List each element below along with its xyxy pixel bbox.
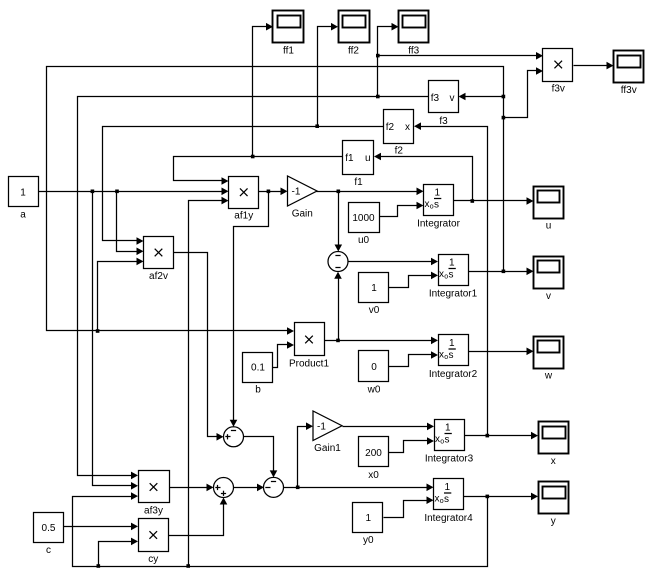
- svg-text:a: a: [20, 210, 26, 221]
- wire f1 branch to scope ff1: [253, 23, 274, 157]
- svg-text:s: s: [445, 435, 450, 446]
- wire Product1 branch to Sum1 bottom: [334, 272, 342, 341]
- wire a to af1y input2: [39, 188, 229, 196]
- wire u0 to Integrator ic: [379, 202, 424, 217]
- svg-text:1: 1: [445, 482, 451, 493]
- sum Sum4 (left -, top -): [264, 477, 284, 497]
- integrator Integrator4: [424, 479, 473, 525]
- svg-text:ff1: ff1: [283, 46, 294, 57]
- wire f2 branch to scope ff2: [318, 23, 339, 127]
- wire Sum3 output to Sum4 left: [234, 484, 265, 492]
- subsystem f1: [343, 141, 374, 189]
- gain Gain: [288, 176, 318, 219]
- constant b: [243, 353, 273, 396]
- scope ff2: [339, 11, 370, 57]
- svg-text:x: x: [425, 199, 430, 210]
- svg-text:Product1: Product1: [289, 358, 329, 369]
- svg-text:1: 1: [365, 513, 371, 524]
- wire y feedback trunk to af3y input3: [73, 492, 488, 568]
- svg-text:f1: f1: [345, 153, 354, 164]
- wire Gain1 output to Integrator3 input1: [343, 423, 435, 431]
- wire v feedback to f3 input: [459, 93, 504, 101]
- wire af1y branch to Sum2 top: [230, 192, 269, 427]
- wire af2v output to Sum2 left: [174, 253, 224, 441]
- scope v: [534, 257, 564, 303]
- svg-text:ff2: ff2: [348, 46, 359, 57]
- wire f3 branch to scope ff3: [378, 23, 399, 56]
- svg-text:f3: f3: [431, 93, 440, 104]
- scope x: [539, 422, 569, 468]
- svg-text:1: 1: [445, 423, 451, 434]
- product Product1: [289, 323, 329, 370]
- wire Integrator1 output to scope v: [469, 268, 534, 276]
- constant a: [9, 177, 39, 221]
- wire Gain output to Integrator input1: [317, 188, 424, 196]
- subsystem f3: [429, 81, 459, 128]
- wire c to cy input1: [64, 523, 139, 531]
- wire Sum2 output to Sum4 top: [244, 437, 278, 478]
- svg-text:Integrator2: Integrator2: [429, 369, 478, 380]
- scope u: [534, 187, 564, 232]
- svg-text:x: x: [405, 122, 410, 133]
- wire u feedback to f1 input: [374, 153, 473, 201]
- svg-text:200: 200: [365, 448, 382, 459]
- svg-text:af1y: af1y: [234, 210, 253, 221]
- wire f2 output to af2v input1: [103, 124, 384, 244]
- svg-text:1: 1: [371, 283, 377, 294]
- constant y0: [353, 503, 383, 547]
- integrator Integrator2: [429, 335, 478, 381]
- constant v0: [359, 273, 389, 317]
- svg-text:c: c: [46, 545, 51, 556]
- wire x0 to Integrator3 ic: [389, 437, 435, 452]
- wire Integrator output to scope u: [454, 197, 534, 205]
- svg-text:Gain1: Gain1: [314, 443, 341, 454]
- product f3v: [543, 49, 573, 95]
- wire x feedback to f2 input: [414, 122, 488, 435]
- wire Integrator2 output to scope w: [469, 348, 534, 356]
- svg-text:1: 1: [449, 258, 455, 269]
- svg-text:f2: f2: [395, 146, 404, 157]
- svg-text:ff3v: ff3v: [621, 85, 637, 96]
- wire Sum4 branch to Gain1: [298, 422, 314, 487]
- gain Gain1: [313, 411, 342, 454]
- svg-text:x: x: [439, 350, 444, 361]
- svg-text:u: u: [365, 153, 371, 164]
- wire Sum4 output to Integrator4 input1: [284, 484, 434, 492]
- sum Sum3 (left +, bottom +): [214, 478, 234, 498]
- product cy: [139, 519, 169, 565]
- svg-text:-1: -1: [292, 187, 301, 198]
- constant x0: [359, 437, 389, 482]
- sum Sum1 (top -, bottom -): [328, 252, 348, 272]
- constant u0: [349, 203, 380, 247]
- svg-text:x: x: [551, 456, 556, 467]
- constant w0: [359, 351, 389, 396]
- svg-text:y0: y0: [363, 535, 374, 546]
- wire f3 branch to f3v input1: [378, 52, 544, 60]
- svg-text:v0: v0: [369, 305, 380, 316]
- svg-text:0.1: 0.1: [251, 363, 265, 374]
- svg-text:x: x: [435, 494, 440, 505]
- scope w: [534, 337, 564, 382]
- wire af3y output to Sum3 left: [169, 484, 214, 492]
- wire f3 output to af3y input1: [78, 54, 429, 479]
- svg-text:1: 1: [449, 338, 455, 349]
- svg-text:cy: cy: [148, 554, 158, 565]
- svg-text:y: y: [551, 516, 556, 527]
- wire f3v output to scope ff3v: [574, 62, 614, 70]
- wire Integrator3 output to scope x: [465, 432, 539, 440]
- svg-text:ff3: ff3: [408, 46, 419, 57]
- wire a branch to af2v input2: [117, 192, 144, 256]
- scope ff3: [399, 11, 429, 57]
- svg-text:x: x: [439, 269, 444, 280]
- wire f3 branch up: [377, 56, 379, 97]
- wire cy output to Sum3 bottom: [169, 498, 228, 536]
- svg-text:f1: f1: [354, 177, 363, 188]
- svg-text:-1: -1: [317, 421, 326, 432]
- product af2v: [144, 237, 174, 282]
- wire y0 to Integrator4 ic: [384, 496, 434, 517]
- sum Sum2 (left +, top -): [224, 427, 244, 447]
- wire v feedback trunk: [47, 67, 506, 335]
- svg-text:x: x: [435, 434, 440, 445]
- wire Sum1 output to Integrator1 input1: [349, 258, 439, 266]
- wire Gain branch to Sum1 top: [335, 192, 343, 252]
- wire f1 output to af1y input1: [174, 155, 343, 185]
- wire y feedback to cy input2: [99, 538, 139, 567]
- svg-text:s: s: [444, 494, 449, 505]
- svg-text:1000: 1000: [352, 213, 375, 224]
- integrator Integrator3: [425, 420, 474, 465]
- svg-text:Integrator: Integrator: [417, 219, 460, 230]
- wire Product1 output to Integrator2 input1: [325, 337, 439, 345]
- constant c: [34, 513, 64, 557]
- svg-text:af2v: af2v: [149, 271, 168, 282]
- scope ff3v: [614, 51, 644, 97]
- wire af1y output to Gain: [259, 188, 288, 196]
- product af1y: [229, 177, 259, 222]
- svg-text:b: b: [255, 385, 261, 396]
- svg-text:1: 1: [435, 188, 441, 199]
- svg-text:v: v: [450, 93, 455, 104]
- svg-text:1: 1: [20, 188, 26, 199]
- subsystem f2: [384, 110, 414, 157]
- svg-text:Integrator4: Integrator4: [424, 513, 473, 524]
- svg-text:x0: x0: [368, 470, 379, 481]
- svg-text:Gain: Gain: [292, 208, 313, 219]
- svg-text:s: s: [434, 200, 439, 211]
- svg-text:w: w: [544, 371, 553, 382]
- svg-text:v: v: [546, 291, 551, 302]
- wire y feedback to af1y input3: [189, 197, 229, 567]
- product af3y: [139, 471, 170, 517]
- svg-text:Integrator1: Integrator1: [429, 289, 478, 300]
- wire v feedback to f3v input2: [504, 67, 544, 117]
- svg-text:s: s: [449, 270, 454, 281]
- svg-text:u: u: [546, 221, 552, 232]
- svg-text:Integrator3: Integrator3: [425, 454, 474, 465]
- wire b to Product1 input2: [273, 341, 295, 367]
- svg-text:s: s: [449, 350, 454, 361]
- integrator Integrator1: [429, 255, 478, 300]
- wire a branch to af3y input2: [93, 192, 139, 490]
- svg-text:0: 0: [371, 362, 377, 373]
- svg-text:w0: w0: [367, 385, 381, 396]
- wire Integrator4 output to scope y: [464, 493, 539, 501]
- svg-text:f3: f3: [439, 116, 448, 127]
- svg-text:u0: u0: [358, 235, 370, 246]
- wire v feedback to af2v input3: [98, 258, 144, 331]
- svg-text:0.5: 0.5: [42, 523, 56, 534]
- wire w0 to Integrator2 ic: [389, 351, 439, 366]
- scope ff1: [273, 11, 304, 57]
- scope y: [539, 482, 569, 528]
- integrator Integrator: [417, 185, 460, 230]
- wire v0 to Integrator1 ic: [389, 272, 439, 288]
- svg-text:f2: f2: [386, 122, 395, 133]
- svg-text:af3y: af3y: [144, 505, 163, 516]
- svg-text:f3v: f3v: [552, 83, 565, 94]
